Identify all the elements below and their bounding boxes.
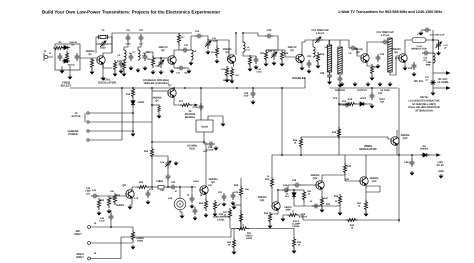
capacitor C45 <box>231 192 236 200</box>
wire pa supply drop <box>398 88 400 222</box>
svg-text:OSCILLATOR: OSCILLATOR <box>98 81 116 85</box>
svg-text:47uF: 47uF <box>243 95 249 98</box>
ground C32 <box>419 31 424 36</box>
resistor R24 <box>150 147 153 159</box>
svg-text:TP2: TP2 <box>333 97 338 100</box>
resistor R14b <box>215 46 218 58</box>
svg-text:SELECT: SELECT <box>60 84 71 88</box>
wire C8 to L2 <box>138 42 141 50</box>
svg-text:L9: L9 <box>349 52 352 55</box>
svg-text:R33: R33 <box>265 178 270 181</box>
svg-text:C34 TRIM CAP: C34 TRIM CAP <box>430 34 445 37</box>
wire r33t <box>233 229 235 239</box>
wire filter in <box>305 40 313 42</box>
ground Q2 emitter <box>170 69 175 74</box>
wire Q6 collector <box>405 40 412 54</box>
inductor L1 <box>124 50 126 60</box>
resonator L10 shielded <box>388 38 392 72</box>
capacitor C50 <box>251 90 256 98</box>
svg-text:GAIN: GAIN <box>137 240 143 243</box>
ground L1 <box>122 72 127 77</box>
wire l13 <box>152 156 168 159</box>
ground R39 <box>338 211 343 216</box>
node q3 coll <box>235 32 237 34</box>
resistor R43 <box>343 163 346 175</box>
svg-text:LEVEL: LEVEL <box>217 218 225 221</box>
wire Q6 base <box>390 56 399 75</box>
capacitor C53 <box>190 195 195 203</box>
svg-text:Q2: Q2 <box>161 49 165 52</box>
wire rail drop to Q1 <box>111 33 113 53</box>
wire r36 top line <box>301 136 388 138</box>
resistor R14 <box>248 55 251 67</box>
ground R6 <box>151 70 156 75</box>
svg-text:VCO: VCO <box>189 148 195 151</box>
node c50 <box>252 87 254 89</box>
wire r33 column <box>271 155 273 178</box>
ground C34 <box>436 51 441 56</box>
resistor R42 <box>337 127 340 139</box>
svg-text:LEVEL: LEVEL <box>292 225 300 228</box>
svg-text:50 OHMS: 50 OHMS <box>438 81 449 84</box>
wire C14 to trim <box>203 36 208 40</box>
wire q11 collector <box>278 190 282 202</box>
capacitor C8 <box>139 34 144 42</box>
svg-text:C49: C49 <box>292 179 297 182</box>
svg-text:C52+: C52+ <box>404 161 410 164</box>
wire c52 <box>411 155 413 159</box>
ground R33t <box>232 250 237 255</box>
trimmer capacitor C15 <box>205 39 211 49</box>
svg-text:C25: C25 <box>320 72 325 75</box>
resistor R12 <box>280 50 283 62</box>
transistor Q11 video amp <box>272 202 280 211</box>
svg-text:C11: C11 <box>184 44 189 47</box>
svg-text:100: 100 <box>208 184 212 187</box>
svg-text:R6: R6 <box>148 58 152 61</box>
svg-text:1k: 1k <box>200 194 203 197</box>
capacitor C1 <box>58 53 63 61</box>
trimmer capacitor C24 <box>313 37 323 43</box>
node clamp node <box>293 189 295 191</box>
ground TP1 <box>157 114 162 119</box>
resistor R30 term <box>292 237 295 249</box>
wire L5 bottom <box>243 52 256 56</box>
resistor R7 <box>177 33 180 45</box>
wire r32 column <box>240 178 242 187</box>
ground R12 <box>280 62 285 67</box>
svg-text:0.001: 0.001 <box>256 70 262 73</box>
wire Q4 emitter <box>301 63 303 67</box>
svg-text:+5V: +5V <box>203 150 207 153</box>
svg-text:+C36: +C36 <box>192 106 198 109</box>
wire q10 base feed <box>388 137 391 139</box>
inductor L14 <box>433 53 435 63</box>
ground C30 <box>370 104 375 109</box>
node q7 coll <box>173 87 175 89</box>
wire Q1 collector <box>103 53 112 56</box>
ground C42 <box>146 200 151 205</box>
capacitor C9 <box>143 53 148 61</box>
wire r35 <box>240 210 242 213</box>
trimmer capacitor C10 <box>158 58 164 68</box>
svg-text:R15: R15 <box>374 66 379 69</box>
node Q2 base <box>160 57 162 59</box>
ferrite bead FB1 <box>158 186 164 190</box>
svg-text:1-Watt TV Transmitters for 902: 1-Watt TV Transmitters for 902-928 MHz a… <box>338 10 442 14</box>
wire q10 collector <box>396 145 398 155</box>
ground C29 <box>376 64 381 69</box>
wire Q6 emitter gnd <box>404 62 406 66</box>
wire R6 up <box>152 52 154 58</box>
svg-text:C51: C51 <box>342 100 347 103</box>
wire Q3 collector up <box>235 33 237 55</box>
svg-text:R4: R4 <box>117 60 121 63</box>
wire r29 col <box>229 220 231 229</box>
svg-text:J1: J1 <box>49 52 52 55</box>
wire d5 right <box>429 154 436 156</box>
svg-text:L1: L1 <box>118 54 121 57</box>
connector J2 bracket <box>84 113 86 122</box>
wire r36 bottom <box>300 149 302 155</box>
capacitor C5 <box>119 60 124 68</box>
svg-text:INPUT: INPUT <box>74 233 82 236</box>
svg-text:C21: C21 <box>268 50 273 53</box>
potentiometer R37 clamp level <box>287 213 299 216</box>
svg-text:Q7: Q7 <box>168 84 172 87</box>
svg-text:0.001: 0.001 <box>193 180 199 183</box>
connector J1 video-freq input <box>44 55 48 59</box>
diode D1 <box>62 46 70 50</box>
capacitor C20 <box>265 34 273 39</box>
svg-text:ACTIVE: ACTIVE <box>71 115 81 118</box>
diode D2 <box>62 59 70 63</box>
capacitor C37 <box>199 103 204 111</box>
svg-text:R20: R20 <box>100 199 105 202</box>
svg-text:4.7k: 4.7k <box>134 197 139 200</box>
ground C50 <box>251 100 256 105</box>
node pa out <box>432 39 434 41</box>
resistor R10 <box>230 67 233 79</box>
svg-text:BUFFER: BUFFER <box>223 79 233 82</box>
wire r32 down <box>240 198 242 229</box>
svg-text:0.001: 0.001 <box>125 43 131 46</box>
resistor R39 <box>338 194 341 206</box>
capacitor C41 <box>91 194 99 199</box>
wire j2 a <box>89 112 133 114</box>
wire Q2 base <box>153 57 168 59</box>
svg-text:R31: R31 <box>247 232 252 235</box>
capacitor C28 <box>349 46 357 51</box>
wire c38 <box>204 142 207 144</box>
wire Q5 collector <box>367 42 381 54</box>
supply arrow +12V <box>436 153 440 156</box>
wire L7 top <box>312 40 314 47</box>
wire Q7 base line <box>152 90 168 92</box>
wire Q7 emitter <box>174 97 181 105</box>
wire Q5 base <box>357 48 361 56</box>
regulator U1 78L05 box <box>196 120 213 132</box>
svg-text:TAP: TAP <box>380 101 385 104</box>
svg-text:TRIPLER (1300 MHz): TRIPLER (1300 MHz) <box>143 82 169 85</box>
capacitor C32 feedthru <box>423 28 431 33</box>
wire mic line top <box>90 226 133 228</box>
svg-text:R36: R36 <box>293 139 298 142</box>
svg-text:100: 100 <box>235 74 239 77</box>
wire modulator rail <box>272 154 430 156</box>
wire freq select to ground a <box>61 66 63 69</box>
capacitor C44 <box>222 193 227 201</box>
svg-text:C29: C29 <box>380 53 385 56</box>
node mod rail x399 <box>398 154 400 156</box>
svg-text:3k: 3k <box>335 200 338 203</box>
wire j2 b up <box>151 88 153 142</box>
node bus junction at x201 <box>200 87 202 89</box>
svg-text:R23: R23 <box>139 181 144 184</box>
wire q12 base <box>288 185 293 190</box>
ground C7 <box>129 66 134 71</box>
ground row d <box>378 82 383 87</box>
wire r32 gnd stub <box>234 204 241 206</box>
node led j-active <box>132 112 134 114</box>
wire pot bottom <box>132 242 134 243</box>
wire c32 stub <box>421 29 423 31</box>
transistor Q6 power amplifier <box>399 54 407 63</box>
wire q8 emitter <box>130 198 132 205</box>
ground R15 <box>370 76 375 81</box>
svg-text:R18: R18 <box>348 98 353 101</box>
wire gain rail <box>231 228 238 230</box>
svg-text:1-10 pF: 1-10 pF <box>316 32 325 35</box>
svg-text:J5: J5 <box>94 222 97 225</box>
node bus junction at x122 <box>121 87 123 89</box>
resistor R11 <box>264 50 267 62</box>
wire Q4 collector <box>302 42 305 55</box>
svg-text:MODULATOR: MODULATOR <box>359 148 376 151</box>
capacitor C42 <box>146 190 151 198</box>
ground R14 <box>248 67 253 72</box>
svg-text:R12: R12 <box>284 52 289 55</box>
transistor Q4 doubler <box>296 54 304 63</box>
wire C11 left <box>179 49 181 51</box>
wire rf out a <box>433 72 447 74</box>
ground Q6 <box>403 66 408 71</box>
resistor R32 <box>239 186 242 198</box>
svg-text:C44: C44 <box>218 191 223 194</box>
rf out arrow b <box>446 86 451 90</box>
wire video riser <box>120 237 122 259</box>
ground T1 <box>180 214 185 219</box>
ground R11 <box>264 62 269 67</box>
capacitor C12 bypass <box>177 66 185 71</box>
wire trim to R14 <box>208 40 217 47</box>
wire to next stage <box>243 33 265 36</box>
node c53 <box>191 186 193 188</box>
svg-text:C14: C14 <box>195 30 200 33</box>
ground Q8 <box>128 205 133 210</box>
connector mic jack sleeve <box>88 242 91 245</box>
ground R10 <box>230 79 235 84</box>
wire Q3 emitter <box>233 63 235 67</box>
ground C54 <box>193 216 198 221</box>
ground R30t <box>292 249 297 254</box>
variable inductor L13 <box>165 159 171 169</box>
svg-text:1-10 pF: 1-10 pF <box>381 34 390 37</box>
wire base rail <box>266 49 285 51</box>
svg-text:BUFFER: BUFFER <box>335 89 345 92</box>
wire L10 top <box>389 41 390 43</box>
wire c50 <box>252 88 254 90</box>
wire q9 emitter <box>205 194 207 200</box>
ground C36 <box>412 72 417 77</box>
resistor R9 <box>225 66 228 78</box>
wire trim left <box>96 43 98 45</box>
transistor Q10 modulator <box>391 137 399 146</box>
wire q12 emitter <box>321 189 323 196</box>
capacitor C46 <box>282 188 290 193</box>
capacitor C36 <box>412 62 417 70</box>
ground L2 <box>136 68 141 73</box>
wire c46 out <box>290 189 304 191</box>
ground R28 <box>131 245 136 250</box>
connector camera pin b <box>87 139 89 141</box>
wire 9v bus drop <box>121 88 123 140</box>
svg-text:1N4148: 1N4148 <box>67 64 75 67</box>
svg-text:DC IN: DC IN <box>437 164 444 167</box>
svg-text:100pF: 100pF <box>100 47 107 50</box>
freq select box <box>55 44 80 70</box>
wire link to Q5 <box>340 40 349 48</box>
svg-text:C10: C10 <box>155 65 160 68</box>
resistor R6 <box>151 56 154 68</box>
svg-text:R42: R42 <box>332 131 337 134</box>
svg-text:Q1: Q1 <box>88 53 92 56</box>
svg-text:1k: 1k <box>129 52 132 55</box>
svg-text:ENABLE: ENABLE <box>185 116 196 119</box>
svg-text:RF P.A.: RF P.A. <box>414 79 424 83</box>
wire resonator link <box>330 40 341 46</box>
wire r33 down <box>271 189 273 204</box>
ground row b <box>353 82 358 87</box>
wire mod drop left <box>281 88 283 155</box>
ground freq select b <box>68 75 73 80</box>
wire q11 emitter <box>270 210 278 214</box>
svg-text:C20: C20 <box>267 29 272 32</box>
svg-text:LVL: LVL <box>86 192 91 195</box>
transistor Q3 buffer <box>227 55 235 64</box>
ground C5 <box>119 69 124 74</box>
wire c53 <box>191 187 193 195</box>
ground L4 <box>189 61 194 66</box>
wire c43 to q9 <box>177 186 196 188</box>
wire bus end stub <box>304 78 306 88</box>
resistor R18 <box>345 102 357 105</box>
svg-text:R16: R16 <box>126 93 131 96</box>
resistor R23 <box>137 185 149 188</box>
svg-text:R7: R7 <box>182 36 186 39</box>
svg-text:10k: 10k <box>110 190 114 193</box>
wire tp1 <box>152 104 159 106</box>
potentiometer R28 audio gain <box>131 230 134 242</box>
wire trim out <box>323 40 329 44</box>
wire q13 base <box>345 175 360 181</box>
capacitor C11 <box>181 48 189 53</box>
ground freq select a <box>60 69 65 74</box>
wire bus rise <box>230 229 232 238</box>
wire Q1 emitter <box>103 64 112 68</box>
ground row c <box>366 82 371 87</box>
svg-text:R17: R17 <box>179 100 184 103</box>
wire j2 b <box>89 121 152 123</box>
ground C19 <box>254 65 259 70</box>
wire clamp rail <box>294 205 340 207</box>
resistor R46 <box>364 200 367 212</box>
ground R26 <box>204 213 209 218</box>
resistor R44 <box>320 196 323 208</box>
svg-text:C46: C46 <box>283 184 288 187</box>
wire c35 right <box>430 52 433 54</box>
svg-text:Q4: Q4 <box>290 49 294 52</box>
svg-text:C38: C38 <box>244 92 249 95</box>
wire Q1 base <box>80 57 97 59</box>
svg-text:J6: J6 <box>94 252 97 255</box>
svg-text:Q10: Q10 <box>403 137 408 140</box>
ground C21 <box>272 61 277 66</box>
ground chassis <box>439 174 444 179</box>
wire reg down <box>203 132 205 142</box>
svg-text:FB: FB <box>161 189 164 192</box>
wire monitor branch <box>339 103 345 105</box>
svg-text:C7: C7 <box>133 51 137 54</box>
svg-text:R22: R22 <box>116 194 121 197</box>
diode D4 clamp <box>292 191 296 199</box>
svg-text:R37 A: R37 A <box>293 220 300 223</box>
wire mic riser top <box>110 210 112 213</box>
node clamp x399 <box>398 219 400 221</box>
svg-text:C8: C8 <box>139 29 143 32</box>
svg-text:10T: 10T <box>246 48 250 51</box>
svg-text:Q12: Q12 <box>313 177 318 180</box>
svg-text:R22: R22 <box>144 150 149 153</box>
wire C30 drop <box>371 88 373 92</box>
svg-text:C41: C41 <box>92 189 97 192</box>
ground regulator <box>221 122 226 127</box>
wire mic riser <box>110 221 112 227</box>
resistor R38 <box>302 190 305 202</box>
resistor R49 <box>346 218 358 221</box>
svg-text:C42: C42 <box>301 213 306 216</box>
capacitor C52 electrolytic <box>410 159 415 167</box>
capacitor C38 <box>207 142 215 147</box>
inductor L4 <box>191 50 193 60</box>
svg-text:L20: L20 <box>168 197 173 200</box>
capacitor C7 <box>129 53 134 61</box>
connector J2 pin a <box>87 112 89 114</box>
svg-text:1N4001: 1N4001 <box>420 148 429 151</box>
resistor R36 modulator <box>299 137 302 149</box>
node r32 <box>240 228 242 230</box>
ground row e <box>388 82 393 87</box>
wire gain rail drop <box>293 229 295 239</box>
ground C38 <box>214 146 219 151</box>
node l5 top <box>242 32 244 34</box>
wire R7 to Q2 collector <box>174 44 179 56</box>
ground C23 <box>307 69 312 74</box>
svg-text:R12: R12 <box>221 68 226 71</box>
svg-text:L4: L4 <box>194 50 197 53</box>
resistor R13 <box>316 52 319 64</box>
potentiometer R31 gain <box>237 227 249 230</box>
